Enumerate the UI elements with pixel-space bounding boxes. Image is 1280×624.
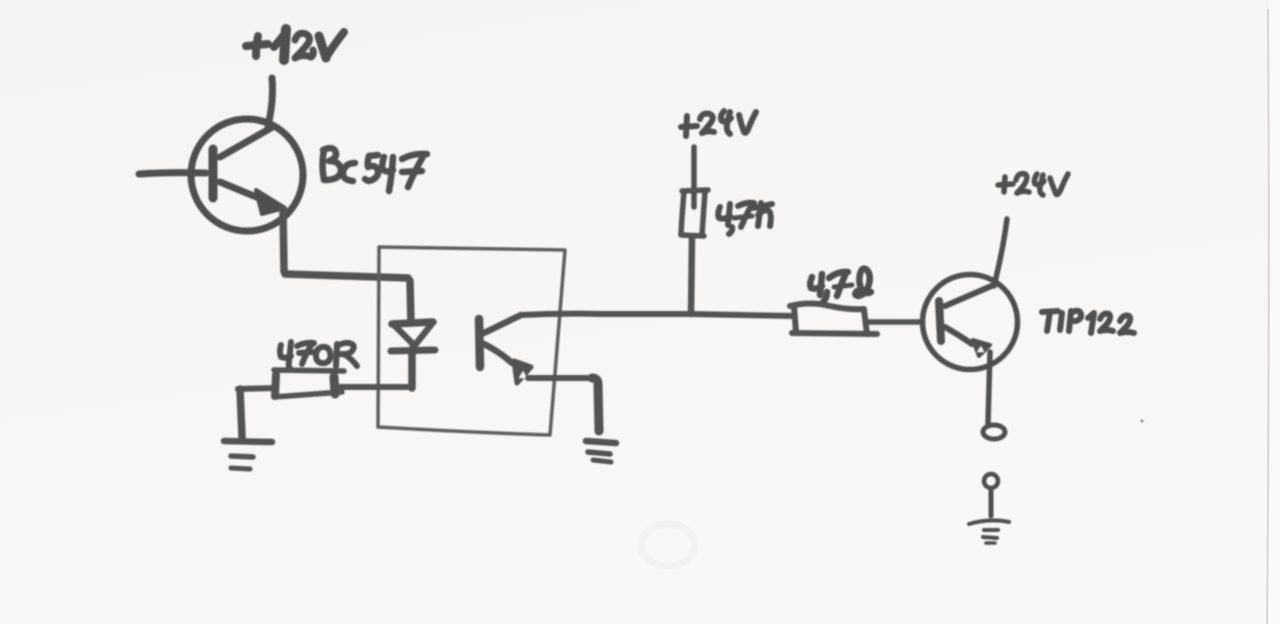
wire opto collector to junction	[521, 314, 691, 315]
wire R3 to Q2 base	[868, 319, 921, 325]
resistor R2 4.7k vertical	[681, 190, 708, 236]
label 4,7k (R2)	[718, 203, 772, 234]
LED D1	[391, 322, 435, 388]
transistor Q1 BC547	[191, 119, 303, 231]
opto phototransistor	[479, 315, 531, 383]
label 4,7k (R3)	[810, 269, 871, 302]
ground GND2	[586, 441, 616, 462]
resistor R1 470R	[274, 370, 344, 397]
wire Q1 emitter to opto LED	[283, 210, 411, 323]
wire R2 to junction	[691, 237, 692, 314]
faint smudge ghost	[641, 524, 695, 566]
junction dot	[598, 311, 604, 317]
terminal circle lower	[984, 474, 998, 488]
wire R1 left	[238, 388, 276, 389]
power label +12V	[246, 29, 344, 60]
wire opto emitter corner down	[592, 378, 599, 431]
tiny speck	[1141, 420, 1144, 423]
terminal loop	[983, 425, 1005, 439]
power label +24V left	[681, 111, 756, 136]
wire Q2 emitter	[988, 352, 990, 423]
label TIP122	[1042, 311, 1134, 333]
resistor R3 4.7k horizontal	[790, 304, 877, 335]
wire +24V to R2	[691, 147, 697, 207]
page edge line right	[1267, 10, 1269, 624]
transistor Q2 TIP122	[923, 275, 1018, 370]
wire opto emitter	[528, 375, 592, 381]
wire Q1 collector to +12V	[268, 78, 273, 126]
wire terminal to GND3	[989, 491, 994, 516]
wire junction to R3	[691, 314, 794, 316]
label BC547	[323, 148, 428, 191]
wire R1 right to LED	[340, 384, 412, 390]
optocoupler U1 box	[378, 247, 565, 435]
label 470R	[280, 342, 357, 368]
ground GND1	[224, 441, 272, 469]
ground GND3	[969, 520, 1009, 543]
wire Q2 collector to +24V	[994, 219, 1007, 286]
wire down to GND1	[240, 389, 242, 437]
wire Q1 base	[139, 173, 206, 174]
power label +24V right	[998, 174, 1068, 195]
